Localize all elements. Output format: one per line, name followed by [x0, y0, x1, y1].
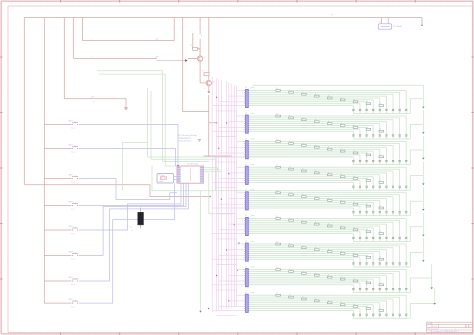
wire	[359, 264, 361, 267]
wire	[366, 204, 368, 211]
capacitor C57	[366, 211, 368, 213]
wire	[410, 304, 434, 319]
resistor R18	[366, 103, 371, 105]
wire row drop	[422, 238, 424, 260]
wire inter-row net	[217, 187, 237, 189]
resistor R65	[327, 225, 332, 227]
wire pin net	[212, 207, 244, 209]
bus line	[216, 78, 218, 311]
svg-text:1 of 1: 1 of 1	[433, 326, 437, 328]
switch SW1	[72, 124, 73, 125]
wire	[250, 272, 393, 274]
svg-text:Conn: Conn	[251, 138, 255, 140]
wire	[250, 302, 380, 304]
wire inter-row net	[217, 289, 237, 291]
capacitor C77	[366, 262, 368, 264]
wire	[250, 115, 407, 117]
wire	[399, 136, 401, 139]
wire	[352, 182, 354, 185]
wire	[399, 169, 401, 185]
wire pin net	[229, 172, 244, 174]
svg-text:D?: D?	[399, 214, 401, 216]
wire	[385, 173, 387, 186]
wire	[385, 315, 387, 318]
svg-text:J?: J?	[245, 190, 247, 192]
wire switch 2 output	[79, 149, 176, 167]
wire	[392, 120, 394, 134]
wire	[352, 111, 354, 114]
capacitor C27	[366, 134, 368, 136]
wire	[352, 162, 354, 165]
resistor R69	[379, 233, 384, 235]
capacitor C58	[359, 211, 361, 213]
wire	[405, 193, 407, 211]
capacitor C79	[352, 262, 354, 264]
node junction	[226, 249, 227, 250]
wire pin net	[236, 192, 244, 194]
wire bus vertical E	[82, 18, 84, 41]
capacitor C13	[392, 108, 394, 110]
svg-text:D?: D?	[399, 316, 401, 318]
wire row rail	[353, 164, 410, 166]
svg-text:Conn: Conn	[251, 190, 255, 192]
wire	[352, 131, 354, 134]
wire	[250, 219, 400, 221]
resistor R13	[302, 93, 307, 95]
wire	[250, 306, 367, 308]
resistor R47	[353, 178, 358, 180]
wire	[399, 144, 401, 160]
wire	[250, 258, 354, 260]
svg-text:D?: D?	[399, 291, 401, 293]
wire	[250, 150, 374, 152]
node junction	[218, 148, 219, 149]
wire	[392, 299, 394, 313]
wire	[385, 96, 387, 109]
svg-text:SW?: SW?	[69, 251, 73, 253]
wire	[399, 162, 401, 165]
wire pin net	[236, 166, 244, 168]
capacitor C23	[392, 134, 394, 136]
resistor R35	[327, 148, 332, 150]
resistor R84	[315, 274, 320, 276]
wire pin net	[219, 152, 244, 154]
wire switch 8 output	[79, 183, 174, 303]
resistor R58	[366, 205, 371, 207]
wire	[250, 278, 374, 280]
wire	[410, 176, 423, 191]
node junction	[228, 173, 229, 174]
capacitor C34	[385, 160, 387, 162]
wire pin net	[219, 178, 244, 180]
wire	[250, 229, 367, 231]
wire pin net	[219, 306, 244, 308]
wire	[385, 111, 387, 114]
capacitor C61	[405, 236, 407, 238]
wire switch 7 input	[44, 280, 71, 282]
wire	[379, 98, 381, 109]
capacitor C42	[399, 185, 401, 187]
wire	[379, 303, 381, 314]
svg-text:16MHz: 16MHz	[159, 181, 164, 183]
resistor R74	[315, 249, 320, 251]
wire green h1	[97, 70, 163, 72]
svg-text:Q?: Q?	[212, 82, 215, 84]
resistor R67	[353, 229, 358, 231]
wire	[359, 213, 361, 216]
wire	[405, 295, 407, 313]
resistor R76	[340, 253, 345, 255]
svg-text:Q?: Q?	[204, 57, 207, 59]
wire	[250, 280, 367, 282]
capacitor C56	[372, 211, 374, 213]
capacitor C54	[385, 211, 387, 213]
resistor R22	[289, 117, 294, 119]
wire	[385, 122, 387, 135]
node junction	[421, 25, 423, 27]
wire	[250, 203, 367, 205]
bus line	[230, 84, 232, 308]
wire	[352, 208, 354, 211]
wire	[250, 282, 360, 284]
wire	[250, 119, 393, 121]
wire	[385, 264, 387, 267]
wire	[366, 136, 368, 139]
wire	[392, 213, 394, 216]
wire switch 5 input	[44, 229, 71, 231]
wire	[250, 274, 387, 276]
wire	[366, 213, 368, 216]
wire	[392, 136, 394, 139]
wire GND return	[24, 185, 210, 197]
page border ruler right	[472, 1, 474, 334]
capacitor C49	[352, 185, 354, 187]
wire	[379, 277, 381, 288]
resistor R16	[340, 99, 345, 101]
resistor R71	[276, 243, 281, 245]
wire bus vertical D	[72, 18, 74, 59]
wire	[250, 144, 393, 146]
capacitor C22	[399, 134, 401, 136]
wire pin net	[219, 203, 244, 205]
resistor R88	[366, 282, 371, 284]
wire	[204, 155, 233, 157]
resistor R93	[302, 298, 307, 300]
resistor R32	[289, 143, 294, 145]
net arrow marks	[238, 243, 240, 245]
wire	[421, 18, 423, 26]
wire	[410, 124, 423, 139]
wire	[352, 106, 354, 109]
resistor R51	[276, 192, 281, 194]
connector J6	[246, 217, 249, 235]
wire net B	[73, 57, 157, 59]
wire	[392, 273, 394, 287]
resistor R17	[353, 101, 358, 103]
wire	[405, 264, 407, 267]
capacitor C91	[405, 313, 407, 315]
wire pin net	[229, 274, 244, 276]
wire	[405, 136, 407, 139]
wire Q1 emitter to Q2 base	[200, 61, 207, 83]
wire VCC to MCU	[183, 18, 209, 112]
wire	[410, 150, 423, 165]
wire pin net	[229, 146, 244, 148]
wire	[209, 95, 217, 123]
resistor R56	[340, 201, 345, 203]
wire	[352, 234, 354, 237]
wire	[366, 315, 368, 318]
resistor R96	[340, 304, 345, 306]
wire row rail	[353, 112, 410, 114]
wire	[359, 155, 361, 160]
wire row drop	[422, 136, 424, 158]
resistor R73	[302, 247, 307, 249]
wire pin net	[236, 141, 244, 143]
capacitor C32	[399, 160, 401, 162]
wire	[366, 307, 368, 314]
capacitor C66	[372, 236, 374, 238]
wire	[359, 181, 361, 186]
wire	[359, 309, 361, 314]
svg-text:SW?: SW?	[69, 277, 73, 279]
power arrow	[422, 209, 424, 211]
resistor R72	[289, 245, 294, 247]
resistor R27	[353, 127, 358, 129]
page border ruler bottom	[1, 333, 473, 335]
wire	[208, 123, 210, 157]
wire	[385, 136, 387, 139]
wire inter-row net	[217, 238, 237, 240]
capacitor C24	[385, 134, 387, 136]
wire switch 6 output	[79, 183, 186, 255]
wire row drop	[422, 162, 424, 184]
capacitor C83	[392, 288, 394, 290]
wire switch 5 output	[79, 183, 181, 230]
resistor R82	[289, 271, 294, 273]
wire	[250, 126, 367, 128]
power arrow	[434, 303, 436, 305]
resistor R24	[315, 121, 320, 123]
resistor R55	[327, 200, 332, 202]
svg-text:MCU_Microchip_ATmega: MCU_Microchip_ATmega	[178, 134, 197, 137]
transistor Q1	[199, 39, 201, 57]
capacitor C48	[359, 185, 361, 187]
op IC U1 MCU	[177, 166, 204, 183]
capacitor C16	[372, 108, 374, 110]
svg-text:DIP-28_W7.62mm: DIP-28_W7.62mm	[178, 140, 192, 142]
wire	[250, 154, 360, 156]
capacitor C65	[379, 236, 381, 238]
resistor R62	[289, 219, 294, 221]
resistor R68	[366, 231, 371, 233]
capacitor C59	[352, 211, 354, 213]
resistor R64	[315, 223, 320, 225]
svg-text:J?: J?	[245, 215, 247, 217]
svg-text:Conn: Conn	[251, 215, 255, 217]
switch SW7	[72, 280, 73, 281]
resistor R61	[276, 218, 281, 220]
wire	[379, 124, 381, 135]
wire	[385, 250, 387, 263]
wire row drop	[422, 187, 424, 209]
resistor R98	[366, 308, 371, 310]
wire	[359, 283, 361, 288]
wire	[372, 187, 374, 190]
wire	[372, 111, 374, 114]
wire MCU right 2	[204, 169, 220, 171]
wire	[392, 239, 394, 242]
wire	[352, 290, 354, 293]
svg-text:Conn: Conn	[251, 87, 255, 89]
svg-text:SW?: SW?	[69, 299, 73, 301]
page border ruler left	[0, 1, 2, 334]
power arrow	[422, 158, 424, 160]
capacitor C94	[385, 313, 387, 315]
crystal Y1 resonator	[157, 174, 174, 183]
wire	[379, 226, 381, 237]
resistor R36	[340, 150, 345, 152]
capacitor C44	[385, 185, 387, 187]
svg-text:R?: R?	[190, 45, 192, 47]
capacitor C21	[405, 134, 407, 136]
capacitor C74	[385, 262, 387, 264]
wire	[392, 222, 394, 236]
resistor R25	[327, 123, 332, 125]
power arrow	[422, 235, 424, 237]
wire switch 1 output	[79, 125, 178, 166]
wire row rail	[353, 317, 410, 319]
resistor R38	[366, 154, 371, 156]
wire	[392, 290, 394, 293]
node junction	[216, 275, 217, 276]
svg-text:D?: D?	[399, 163, 401, 165]
wire	[366, 290, 368, 293]
resistor R34	[315, 146, 320, 148]
wire	[250, 284, 354, 286]
wire pin net	[229, 121, 244, 123]
wire	[385, 162, 387, 165]
svg-text:Y?: Y?	[130, 227, 132, 229]
wire	[372, 177, 374, 186]
wire	[410, 99, 423, 114]
capacitor C52	[399, 211, 401, 213]
svg-text:J?: J?	[245, 164, 247, 166]
resistor R14	[315, 95, 320, 97]
wire	[359, 129, 361, 134]
svg-text:SW?: SW?	[69, 201, 73, 203]
wire	[250, 130, 354, 132]
wire	[352, 239, 354, 242]
wire	[250, 176, 374, 178]
wire inter-row net	[217, 212, 237, 214]
wire	[392, 171, 394, 185]
wire	[372, 254, 374, 263]
svg-text:J?: J?	[245, 292, 247, 294]
wire	[250, 180, 360, 182]
connector J2	[246, 115, 249, 133]
wire	[372, 228, 374, 237]
wire pin net	[212, 105, 244, 107]
capacitor C87	[366, 288, 368, 290]
wire	[392, 264, 394, 267]
wire	[250, 256, 360, 258]
power arrow	[422, 107, 424, 109]
wire	[250, 269, 407, 271]
wire	[250, 294, 407, 296]
wire	[359, 187, 361, 190]
resistor R41	[276, 166, 281, 168]
svg-text:J?: J?	[245, 113, 247, 115]
capacitor C84	[385, 288, 387, 290]
wire	[250, 128, 360, 130]
wire	[359, 104, 361, 109]
wire	[399, 195, 401, 211]
svg-text:sw_p: sw_p	[71, 233, 75, 235]
wire	[250, 121, 387, 123]
wire	[250, 309, 354, 311]
net arrow	[185, 59, 187, 62]
wire	[250, 198, 387, 200]
capacitor C93	[392, 313, 394, 315]
switch SW8	[72, 303, 73, 304]
resistor R92	[289, 296, 294, 298]
wire	[405, 116, 407, 134]
wire	[366, 102, 368, 109]
wire	[250, 168, 400, 170]
wire	[352, 315, 354, 318]
wire	[366, 153, 368, 160]
wire row rail	[353, 189, 410, 191]
bus line	[226, 81, 228, 309]
wire bus vertical C	[63, 18, 65, 99]
wire	[405, 90, 407, 108]
wire	[399, 92, 401, 108]
wire	[250, 93, 393, 95]
wire green nest h6	[151, 158, 215, 160]
capacitor C81	[405, 288, 407, 290]
wire	[372, 100, 374, 109]
capacitor C46	[372, 185, 374, 187]
resistor R23	[302, 119, 307, 121]
wire	[250, 298, 393, 300]
resistor R49	[379, 182, 384, 184]
wire	[372, 305, 374, 314]
wire	[399, 297, 401, 313]
wire	[250, 95, 387, 97]
switch SW2	[72, 148, 73, 149]
capacitor C89	[352, 288, 354, 290]
wire	[352, 157, 354, 160]
wire	[250, 247, 393, 249]
wire inter-row net	[217, 315, 237, 317]
svg-text:jp: jp	[92, 101, 94, 103]
wire	[250, 143, 400, 145]
wire switch 3 input	[44, 178, 71, 180]
wire	[188, 58, 198, 60]
wire	[392, 162, 394, 165]
wire inter-row net	[217, 110, 237, 112]
wire switch 4 output	[79, 183, 184, 205]
wire switch 4 input	[44, 205, 71, 207]
wire	[250, 170, 393, 172]
bus line	[233, 85, 235, 307]
wire	[250, 304, 374, 306]
resistor R11	[276, 90, 281, 92]
capacitor C19	[352, 108, 354, 110]
wire	[359, 111, 361, 114]
svg-text:Conn: Conn	[251, 113, 255, 115]
